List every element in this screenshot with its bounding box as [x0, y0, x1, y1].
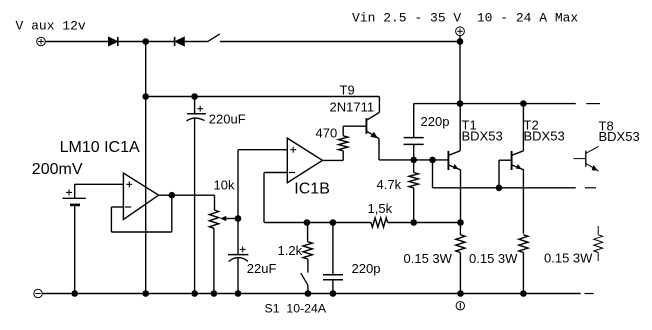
text 200mV label — [32, 161, 83, 178]
wire Vaux to D1 — [46, 41, 109, 43]
switch SW1 lever — [208, 34, 220, 42]
svg-text:T9: T9 — [340, 83, 355, 98]
wire ground rail — [42, 293, 580, 295]
svg-text:200mV: 200mV — [32, 161, 83, 178]
wire Vin terminal down — [459, 36, 461, 104]
battery BT1 200mV — [63, 184, 86, 293]
text 1.2k label — [278, 243, 303, 258]
wire base rail B dash — [585, 187, 596, 189]
svg-text:1,5k: 1,5k — [368, 201, 393, 216]
svg-text:220uF: 220uF — [209, 112, 246, 127]
wire node A to D2 — [146, 41, 175, 43]
text 1,5k label — [368, 201, 393, 216]
text plus battery — [66, 189, 72, 195]
pot wiper arrow — [220, 216, 238, 221]
node 220uF junction — [191, 93, 198, 100]
node C2 ground junction — [235, 290, 242, 297]
svg-text:4.7k: 4.7k — [377, 177, 402, 192]
text LM10 IC1A label — [60, 139, 140, 156]
terminal J3 minus (ground) — [34, 289, 42, 297]
wire T1 base node down — [432, 160, 434, 188]
wire rail B to T9 collector — [146, 96, 380, 98]
svg-text:10k: 10k — [214, 178, 235, 193]
text T8 BDX53 label — [599, 129, 640, 144]
text T1 label — [462, 118, 477, 133]
svg-text:1.2k: 1.2k — [278, 243, 303, 258]
wire IC1B minus input — [264, 173, 287, 223]
resistor R2 470 — [339, 136, 348, 151]
wire pot bottom to ground — [213, 228, 215, 293]
node 220p top junction — [410, 157, 417, 164]
text Vin rating label — [352, 11, 578, 26]
diode D2 — [175, 37, 185, 46]
wire 470 to T9 base — [343, 126, 366, 136]
text 220p upper label — [421, 114, 450, 129]
terminal J2 plus (Vin) — [456, 27, 465, 36]
wire base rail B — [433, 187, 576, 189]
text 22uF label — [247, 261, 277, 276]
terminal J1 plus (V aux) — [37, 37, 46, 46]
text S1 10-24A label — [265, 302, 327, 316]
text 4.7k label — [377, 177, 402, 192]
capacitor C1 220uF — [187, 97, 206, 294]
wire switch to Vin node — [220, 41, 460, 43]
wire D1 to node A — [118, 41, 146, 43]
text plus C2 — [240, 247, 246, 253]
text 220uF label — [209, 112, 246, 127]
op-amp U1 IC1A triangle — [123, 173, 158, 220]
text 470 label — [316, 126, 338, 141]
transistor Q2 T1 BDX53 — [448, 104, 461, 223]
svg-text:0.15 3W: 0.15 3W — [469, 251, 518, 266]
node 4.7k bottom junction — [410, 219, 417, 226]
svg-text:BDX53: BDX53 — [524, 129, 565, 144]
node pot wiper junction — [235, 215, 242, 222]
text 2N1711 label — [330, 99, 375, 114]
text plus C1 — [197, 106, 203, 112]
wire IC1A output to pot — [214, 195, 216, 210]
resistor R6 0.15 3W — [456, 223, 465, 294]
node R7 ground junction — [520, 290, 527, 297]
node IC1A output junction — [169, 192, 176, 199]
capacitor C2 22uF — [228, 219, 248, 294]
wire IC1A feedback — [111, 195, 171, 232]
node 220p2 junction — [330, 219, 337, 226]
svg-text:220p: 220p — [352, 261, 381, 276]
node Vin junction — [457, 38, 464, 45]
potentiometer P1 10k — [209, 210, 218, 228]
diode D1 — [108, 37, 117, 46]
wire ground rail dash — [585, 293, 594, 295]
svg-text:0.15 3W: 0.15 3W — [544, 251, 593, 266]
svg-text:BDX53: BDX53 — [462, 129, 503, 144]
resistor R7 0.15 3W — [519, 235, 528, 294]
wire 1,5k to sense node — [388, 222, 461, 224]
text IC1B label — [294, 181, 330, 198]
resistor R4 1.2k — [303, 223, 312, 273]
svg-text:220p: 220p — [421, 114, 450, 129]
resistor R8 0.15 3W (ghost) — [594, 226, 603, 261]
node B junction — [142, 93, 149, 100]
svg-text:22uF: 22uF — [247, 261, 277, 276]
text T9 label — [340, 83, 355, 98]
node R6 ground junction — [457, 290, 464, 297]
resistor R5 1,5k — [371, 218, 388, 227]
wire T2 base — [499, 160, 512, 188]
wire D2 to switch — [184, 41, 207, 43]
text 220p lower label — [352, 261, 381, 276]
svg-text:0.15 3W: 0.15 3W — [404, 251, 453, 266]
svg-text:IC1B: IC1B — [294, 181, 330, 198]
svg-text:V aux 12v: V aux 12v — [16, 19, 86, 34]
op-amp U2 IC1B triangle — [287, 138, 322, 183]
node C1 ground junction — [191, 290, 198, 297]
resistor R3 4.7k — [409, 160, 418, 223]
text 0.15 3W label 1 — [404, 251, 453, 266]
transistor Q4 T8 BDX53 — [574, 146, 599, 171]
wire collector rail dash — [586, 103, 600, 105]
capacitor C3 220p — [404, 104, 424, 160]
text 0.15 3W label 2 — [469, 251, 518, 266]
svg-text:LM10 IC1A: LM10 IC1A — [60, 139, 140, 156]
svg-text:2N1711: 2N1711 — [330, 99, 375, 114]
wire battery to IC1A plus input — [75, 183, 124, 185]
node pot ground junction — [211, 290, 218, 297]
wire IC1A output — [159, 194, 215, 196]
wire IC1B output — [323, 151, 344, 161]
wire collector rail — [414, 103, 576, 105]
transistor Q3 T2 BDX53 — [511, 104, 524, 234]
node T2 collector junction — [520, 100, 527, 107]
svg-text:BDX53: BDX53 — [599, 129, 640, 144]
node C4 ground junction — [330, 290, 337, 297]
text T2 BDX53 label — [524, 129, 565, 144]
node 1.2k junction — [304, 219, 311, 226]
wire base rail A — [379, 159, 448, 161]
text T8 label — [599, 119, 614, 134]
node A junction — [142, 38, 149, 45]
wire S1 to ground — [307, 285, 309, 293]
node supply ground junction — [142, 290, 149, 297]
svg-text:470: 470 — [316, 126, 338, 141]
node T1 base junction — [429, 157, 436, 164]
text 0.15 3W label 3 — [544, 251, 593, 266]
wire node A vertical to ground rail — [145, 97, 147, 294]
capacitor C4 220p — [323, 223, 343, 294]
node T1 collector junction — [457, 100, 464, 107]
svg-text:Vin 2.5 - 35 V 10 - 24 A Max: Vin 2.5 - 35 V 10 - 24 A Max — [352, 11, 578, 26]
text V aux 12v label — [16, 19, 86, 34]
svg-text:S1 10-24A: S1 10-24A — [265, 302, 327, 316]
terminal J4 output sense — [456, 302, 464, 310]
transistor Q1 T9 2N1711 — [366, 97, 380, 160]
text T1 BDX53 label — [462, 129, 503, 144]
switch S1 lever — [301, 273, 308, 285]
node battery ground junction — [71, 290, 78, 297]
node T2 base junction — [496, 185, 503, 192]
node sense junction — [457, 219, 464, 226]
node S1 ground junction — [305, 290, 312, 297]
text T2 label — [524, 118, 539, 133]
wire node A down — [145, 42, 147, 97]
text 10k label — [214, 178, 235, 193]
wire feedback rail — [264, 222, 371, 224]
wire wiper node up to IC1B plus — [238, 150, 287, 219]
